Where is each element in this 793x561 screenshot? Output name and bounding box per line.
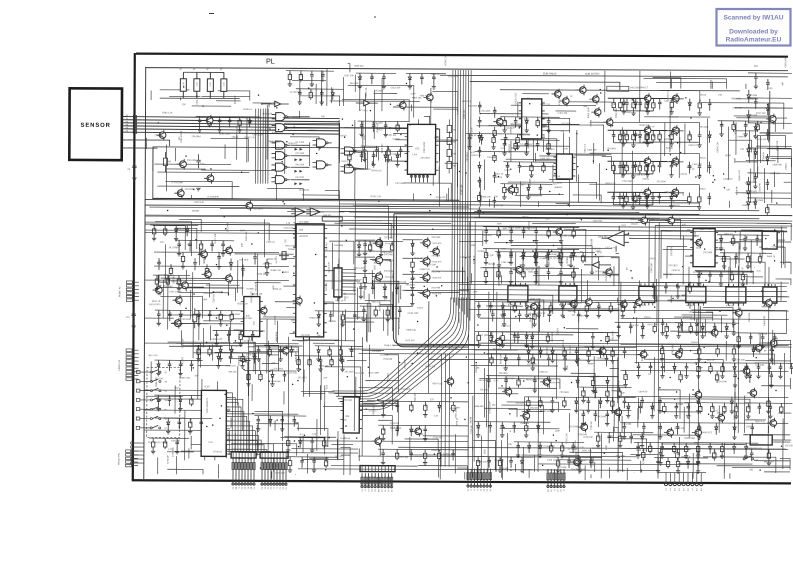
crystal X1 <box>279 255 289 257</box>
svg-text:2SC2408: 2SC2408 <box>622 424 632 426</box>
wire sensor bus 5 <box>122 129 340 131</box>
svg-text:120P: 120P <box>663 319 665 325</box>
wire rail <box>615 321 679 324</box>
connector FRONT A2 <box>126 349 132 352</box>
capacitor C230 <box>589 457 593 468</box>
svg-text:2SA1048: 2SA1048 <box>343 399 353 402</box>
diode D64 <box>700 323 704 339</box>
nand gate IC2-e <box>275 163 284 171</box>
transistor Q64 <box>260 307 267 314</box>
resistor R196 <box>259 371 262 382</box>
capacitor C285 <box>310 71 314 87</box>
svg-text:120P: 120P <box>527 140 529 146</box>
wire rail <box>755 362 793 365</box>
wire mid verticals <box>428 301 430 341</box>
nand gate IC3-b <box>316 161 325 169</box>
svg-text:2SC2408: 2SC2408 <box>275 315 277 325</box>
svg-text:R764 100: R764 100 <box>412 98 422 100</box>
svg-text:R633 0.01: R633 0.01 <box>755 421 766 423</box>
diode D56 <box>669 193 673 209</box>
svg-text:IS1588: IS1588 <box>393 139 401 141</box>
wire bottom rails <box>238 446 786 471</box>
svg-text:IS1588: IS1588 <box>751 115 758 117</box>
svg-text:4.7K: 4.7K <box>210 82 212 87</box>
capacitor C204 <box>512 422 516 433</box>
wire mesh 30 <box>660 434 790 479</box>
transistor Q22 <box>523 412 530 419</box>
transistor Q9 <box>672 127 679 134</box>
wire c set <box>474 98 758 219</box>
resistor R153 <box>437 449 440 460</box>
svg-text:IS1588: IS1588 <box>478 251 486 253</box>
diode D19 <box>530 332 534 349</box>
svg-text:IC1: IC1 <box>416 146 421 150</box>
capacitor C5 <box>196 154 200 168</box>
capacitor C149 <box>577 310 581 322</box>
resistor R113 <box>612 161 615 174</box>
resistor R115 <box>638 161 641 174</box>
diode D2 <box>688 99 691 111</box>
diode D9 <box>747 186 751 199</box>
svg-text:R361 220: R361 220 <box>472 155 482 157</box>
wire mesh 19 <box>643 71 746 88</box>
svg-text:R295 0.1: R295 0.1 <box>243 109 253 111</box>
capacitor C122 <box>493 107 497 118</box>
resistor R140 <box>532 310 536 327</box>
svg-text:C577 4.7K: C577 4.7K <box>287 373 298 375</box>
resistor R264 <box>166 275 169 286</box>
diode D44 <box>528 442 531 453</box>
svg-text:C752 68K: C752 68K <box>499 468 509 470</box>
transistor Q57 <box>770 420 777 427</box>
svg-text:C507 560: C507 560 <box>593 221 603 223</box>
wire h conn rail <box>658 471 706 473</box>
resistor R118 <box>625 192 628 205</box>
capacitor C159 <box>504 376 508 393</box>
svg-text:10K: 10K <box>700 229 704 231</box>
svg-text:2SC2408: 2SC2408 <box>672 344 674 354</box>
wire rail <box>744 402 792 405</box>
svg-text:2SA1048: 2SA1048 <box>227 432 230 442</box>
svg-text:2SC2603: 2SC2603 <box>239 330 241 340</box>
wire rail <box>635 361 699 364</box>
resistor R114 <box>625 161 628 174</box>
svg-text:1000P: 1000P <box>535 251 537 258</box>
capacitor C283 <box>753 173 757 189</box>
svg-text:68K: 68K <box>654 133 656 137</box>
svg-text:D5 IS10B: D5 IS10B <box>295 177 304 179</box>
capacitor C261 <box>292 416 296 427</box>
resistor R230 <box>610 347 614 363</box>
capacitor C251 <box>636 442 640 458</box>
svg-text:100K: 100K <box>497 223 503 225</box>
capacitor C328 <box>617 410 621 421</box>
resistor R139 <box>572 268 575 280</box>
svg-text:100K: 100K <box>626 371 628 377</box>
capacitor C265 <box>208 310 212 321</box>
svg-text:P8: P8 <box>695 489 697 491</box>
wire mesh t 44 <box>229 327 279 370</box>
resistor R106 <box>698 99 702 116</box>
svg-text:A2: A2 <box>266 487 269 489</box>
transistor Q40 <box>496 118 503 125</box>
wire rail <box>608 97 668 99</box>
transistor Q3 <box>562 98 569 105</box>
ic U7 LC6554 <box>201 390 226 456</box>
wire rail <box>535 301 599 304</box>
resistor R179 <box>524 422 528 438</box>
wire bus band 8 <box>145 233 699 236</box>
svg-text:R315 100K: R315 100K <box>285 246 296 248</box>
diode D96 <box>753 123 757 139</box>
svg-text:68K: 68K <box>687 230 691 232</box>
wire rail <box>475 301 539 304</box>
resistor R133 <box>484 249 488 265</box>
svg-text:2SC2408: 2SC2408 <box>187 160 197 162</box>
wire rail <box>695 270 754 273</box>
transistor Q68 <box>201 251 208 258</box>
resistor R259 <box>746 253 750 269</box>
svg-text:C411 0.1: C411 0.1 <box>585 143 587 153</box>
resistor R251 <box>514 140 517 151</box>
wire feeder 2 <box>604 71 606 112</box>
wire mesh 23 <box>303 343 398 431</box>
resistor R60 <box>193 308 197 328</box>
capacitor C242 <box>756 363 760 379</box>
svg-text:47P: 47P <box>389 148 391 152</box>
svg-text:2SC2408: 2SC2408 <box>182 319 192 321</box>
frame left border <box>133 53 135 481</box>
transistor Q18 <box>423 290 430 297</box>
frame bottom border <box>132 480 791 483</box>
svg-text:C565 150: C565 150 <box>354 281 356 291</box>
capacitor C114 <box>638 192 642 205</box>
svg-text:C597 2.2K: C597 2.2K <box>239 355 241 366</box>
svg-text:R526 560: R526 560 <box>382 252 392 254</box>
resistor column right of U1 <box>447 125 452 132</box>
svg-text:R768 2.2K: R768 2.2K <box>445 55 447 66</box>
svg-text:2SC2408: 2SC2408 <box>597 416 607 418</box>
capacitor C198 <box>318 356 322 372</box>
wire row link <box>660 90 700 98</box>
svg-text:R674 33P: R674 33P <box>373 404 375 414</box>
svg-text:R350 120P: R350 120P <box>588 107 590 118</box>
svg-text:C630 6P: C630 6P <box>450 349 459 351</box>
wire rail <box>584 396 636 399</box>
capacitor C224 <box>283 371 287 382</box>
svg-text:R472 100: R472 100 <box>661 231 671 233</box>
svg-text:IS1588: IS1588 <box>676 404 684 406</box>
capacitor C170 <box>769 345 773 362</box>
svg-text:C451 10K: C451 10K <box>732 108 742 110</box>
capacitor C134 <box>509 227 513 243</box>
svg-text:47P: 47P <box>413 292 415 296</box>
svg-text:uPD861: uPD861 <box>686 305 694 307</box>
svg-text:2SC2603: 2SC2603 <box>420 158 430 160</box>
svg-text:2SC2603: 2SC2603 <box>274 368 284 370</box>
svg-text:R741 150: R741 150 <box>582 450 592 452</box>
wire mesh 8 <box>630 219 791 285</box>
diode D99 <box>754 198 757 209</box>
resistor R178 <box>741 271 745 287</box>
svg-text:C499 100: C499 100 <box>591 248 601 250</box>
resistor R103 <box>632 98 635 111</box>
diode pairs gate outputs <box>294 148 302 185</box>
capacitor C206 <box>571 442 575 453</box>
resistor R155 <box>679 345 682 357</box>
capacitor C316 <box>227 330 231 341</box>
wire mesh 10 <box>231 302 339 456</box>
svg-text:2SC2408: 2SC2408 <box>656 181 666 183</box>
resistor R207 <box>720 363 724 379</box>
pin array J13 <box>468 469 490 488</box>
wire rail <box>315 310 367 313</box>
svg-text:2SK19: 2SK19 <box>691 342 698 344</box>
transistor Q59 <box>586 299 593 306</box>
svg-text:100K: 100K <box>202 299 208 301</box>
capacitor C191 <box>509 252 513 263</box>
ic U6 4011 <box>244 297 260 337</box>
svg-text:R572 1000P: R572 1000P <box>399 316 401 329</box>
wire h rail <box>621 318 789 319</box>
svg-text:2SA1048: 2SA1048 <box>263 262 273 265</box>
svg-text:2SC2603: 2SC2603 <box>671 246 673 256</box>
wire sensor bus 1 <box>122 117 340 119</box>
wire sensor bus 4 <box>122 126 340 128</box>
svg-text:R383 33P: R383 33P <box>461 184 463 194</box>
capacitor C172 <box>769 371 773 388</box>
svg-text:C52 10uF: C52 10uF <box>239 259 249 261</box>
svg-text:C420 560: C420 560 <box>494 205 504 207</box>
svg-text:1000P: 1000P <box>283 415 285 422</box>
svg-text:33P: 33P <box>473 291 477 293</box>
svg-text:uPC4558LF: uPC4558LF <box>593 256 605 258</box>
svg-text:2SC2603: 2SC2603 <box>755 365 765 367</box>
svg-text:C779 220: C779 220 <box>568 449 578 451</box>
capacitor C326 <box>593 410 597 421</box>
buffer B3 inverter <box>364 100 370 106</box>
switch S20 <box>743 458 745 460</box>
svg-text:R296 100K: R296 100K <box>219 133 230 135</box>
svg-text:S2: S2 <box>380 490 382 492</box>
diode D81 <box>316 346 320 362</box>
wire bus band r1 <box>459 290 787 292</box>
transistor Q65 <box>176 297 183 304</box>
wire sub rails <box>157 172 249 186</box>
transistor Q34 <box>711 329 718 336</box>
capacitor C171 <box>733 371 737 388</box>
svg-text:IS1588: IS1588 <box>624 112 632 114</box>
svg-text:1000P: 1000P <box>291 320 298 322</box>
svg-text:0.022: 0.022 <box>736 253 738 259</box>
resistor R222 <box>208 345 211 356</box>
svg-text:L40 22uH R40 LT: L40 22uH R40 LT <box>630 87 649 89</box>
resistor R227 <box>230 310 233 321</box>
transistor Q67 <box>226 247 233 254</box>
svg-text:R124 47K: R124 47K <box>385 260 395 262</box>
svg-text:R609 1K: R609 1K <box>476 364 478 373</box>
diode D41 <box>697 271 701 287</box>
resistor R188 <box>390 241 393 252</box>
wire section h-band <box>349 343 792 362</box>
capacitor C297 <box>502 140 506 156</box>
wire rail t <box>650 281 702 284</box>
diode D103 <box>174 225 178 241</box>
svg-text:C421 0.022: C421 0.022 <box>515 92 517 104</box>
svg-text:2SC2603: 2SC2603 <box>760 343 770 345</box>
transistor Q13 <box>375 257 382 264</box>
svg-text:IS1588: IS1588 <box>443 454 451 456</box>
resistor R231 <box>526 397 530 413</box>
box XF1 <box>159 275 169 282</box>
svg-text:2SK19: 2SK19 <box>178 229 185 231</box>
transistor Q71 <box>696 239 703 246</box>
svg-text:C376 330: C376 330 <box>392 154 402 156</box>
capacitor C9 border <box>132 162 136 181</box>
capacitor C211 <box>188 240 192 251</box>
svg-text:2SA1048: 2SA1048 <box>390 422 400 425</box>
capacitor C250 <box>768 403 772 419</box>
wire rail t <box>286 70 334 73</box>
resistor R233 <box>563 397 566 408</box>
svg-text:120P: 120P <box>606 444 608 450</box>
svg-text:C754 47P: C754 47P <box>538 423 540 433</box>
svg-text:C638 4.7K: C638 4.7K <box>384 345 395 347</box>
wire rail t <box>296 88 344 91</box>
wire rcol <box>748 97 792 99</box>
svg-text:2SC1923: 2SC1923 <box>530 407 540 409</box>
svg-text:D1: D1 <box>281 487 283 489</box>
diode D87 <box>599 347 602 358</box>
resistor R184 <box>666 458 669 469</box>
wire rail <box>594 431 653 434</box>
capacitor C158 <box>487 376 491 388</box>
capacitor C302 <box>719 121 723 137</box>
wire mesh t 43 <box>656 279 713 321</box>
svg-text:uPB553: uPB553 <box>554 187 562 189</box>
transistor Q62 <box>296 297 303 304</box>
capacitor C247 <box>674 403 678 419</box>
wire rcol <box>747 197 791 199</box>
wire mesh 16 <box>410 434 647 480</box>
svg-text:C617 100K: C617 100K <box>368 372 379 374</box>
svg-text:68K: 68K <box>350 153 352 157</box>
wire rail <box>195 344 243 347</box>
wire mesh 13 <box>633 296 791 473</box>
capacitor C288 <box>320 89 324 105</box>
resistor R258 <box>722 253 726 269</box>
capacitor C212 <box>210 240 214 251</box>
svg-text:IC20: IC20 <box>204 385 210 388</box>
capacitor C164 <box>423 425 427 441</box>
diode D82 <box>197 310 201 326</box>
svg-text:4.7K: 4.7K <box>168 449 173 451</box>
capacitor C254 <box>382 73 386 89</box>
capacitor C199 <box>340 356 344 372</box>
connector FRONT PW circles <box>131 442 134 445</box>
resistor R254 <box>542 162 545 173</box>
svg-text:R474 0.1: R474 0.1 <box>724 234 734 236</box>
svg-text:R547 1K: R547 1K <box>152 301 161 303</box>
svg-text:0.022: 0.022 <box>734 345 736 351</box>
svg-text:4.7K: 4.7K <box>159 260 161 265</box>
ground sub <box>196 188 200 191</box>
svg-text:R414 220: R414 220 <box>664 139 674 141</box>
svg-text:R386 120P: R386 120P <box>471 127 473 138</box>
wire mesh 15 <box>181 443 358 479</box>
resistor R174 <box>296 356 300 372</box>
capacitor C276 <box>513 332 517 343</box>
svg-text:C406 100: C406 100 <box>540 158 550 160</box>
capacitor C196 <box>178 360 182 376</box>
diode D55 <box>621 192 625 208</box>
capacitor C189 <box>504 134 508 145</box>
resistor R250 <box>536 117 539 128</box>
svg-text:2SC2408: 2SC2408 <box>431 271 441 273</box>
transistor Q35 <box>159 132 166 139</box>
svg-text:47P: 47P <box>273 285 275 289</box>
svg-text:R687 150: R687 150 <box>389 400 399 402</box>
svg-text:2SA1048: 2SA1048 <box>578 433 587 436</box>
resistor R232 <box>539 397 542 408</box>
diode D86 <box>550 347 554 363</box>
svg-text:120P: 120P <box>410 93 416 95</box>
transistor Q6 <box>594 109 601 116</box>
inner top second line <box>440 75 788 77</box>
diode D85 <box>539 347 542 358</box>
svg-text:R614 1K: R614 1K <box>537 313 546 315</box>
svg-text:68K: 68K <box>159 362 161 366</box>
svg-text:BL 1000V: BL 1000V <box>169 247 179 249</box>
svg-text:C380 120P: C380 120P <box>424 141 426 152</box>
resistor R164 <box>642 448 645 460</box>
wire rail <box>164 417 212 420</box>
capacitor C136 <box>534 227 538 243</box>
wire h rail <box>621 370 789 371</box>
svg-text:2SC2408: 2SC2408 <box>749 312 751 322</box>
svg-text:68K: 68K <box>768 206 770 210</box>
capacitor C318 <box>229 352 233 363</box>
svg-text:R730 10: R730 10 <box>213 451 222 453</box>
resistor R189 <box>670 99 674 115</box>
resistor R247 <box>396 121 399 132</box>
resistor R249 <box>502 117 506 133</box>
wire rail <box>619 160 683 163</box>
svg-text:0.022: 0.022 <box>522 457 524 463</box>
badge "Scanned by IW1AU / RadioAmateur.EU" <box>717 9 791 46</box>
capacitor C244 <box>778 363 782 379</box>
diode D106 <box>216 352 220 368</box>
capacitor C232 <box>629 322 633 333</box>
wire bus band 0 <box>145 200 699 203</box>
capacitor C187 <box>371 151 375 167</box>
svg-text:100K: 100K <box>690 132 692 138</box>
wire mesh t 35 <box>291 63 350 106</box>
capacitor C125 <box>363 240 367 256</box>
wire gate output <box>291 155 309 157</box>
svg-text:Downloaded by: Downloaded by <box>729 29 778 36</box>
resistor R111 <box>651 130 654 143</box>
capacitor C282 <box>766 129 770 140</box>
transistor Q49 <box>433 248 440 255</box>
wire e rail <box>483 248 579 251</box>
svg-text:B4: B4 <box>234 487 236 489</box>
resistor R110 <box>645 130 648 143</box>
svg-text:C719 33P: C719 33P <box>398 457 408 459</box>
svg-text:R61: R61 <box>453 129 456 131</box>
svg-text:D20 IS2473: D20 IS2473 <box>149 304 161 306</box>
wire bus band 4 <box>145 215 759 219</box>
